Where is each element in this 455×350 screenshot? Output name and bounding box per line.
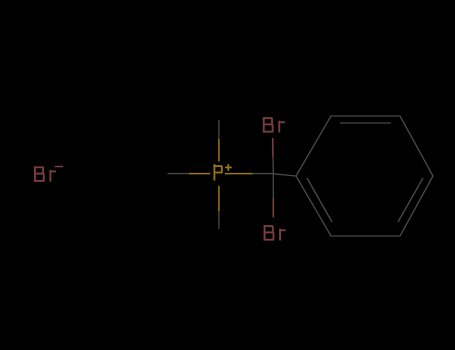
- atom label P+: [214, 164, 223, 180]
- wire P-C1 gold half: [225, 173, 253, 175]
- atom label Br (top): [263, 117, 285, 132]
- wire P-CH3 left gold half: [189, 173, 210, 175]
- wire C1-Br top red half: [272, 138, 274, 158]
- atom label Br (bottom): [264, 225, 286, 240]
- benzene ring C6H5: [296, 116, 433, 236]
- wire P-CH3 top outer half: [218, 120, 220, 139]
- wire P-CH3 bottom outer half: [218, 211, 220, 229]
- wire C1-Br bottom gray half: [272, 174, 274, 198]
- wire C1-Br top gray half: [272, 158, 274, 174]
- charge minus superscript: [55, 166, 63, 168]
- wire P-CH3 left outer half: [168, 173, 190, 175]
- wire C1-ring bond: [273, 174, 296, 176]
- ion label Br- (left): [34, 166, 56, 181]
- wire P-CH3 top gold half: [218, 139, 220, 162]
- wire C1-Br bottom red half: [272, 198, 274, 218]
- wire P-CH3 bottom gold half: [218, 186, 220, 212]
- wire P-C1 outer half: [253, 173, 274, 175]
